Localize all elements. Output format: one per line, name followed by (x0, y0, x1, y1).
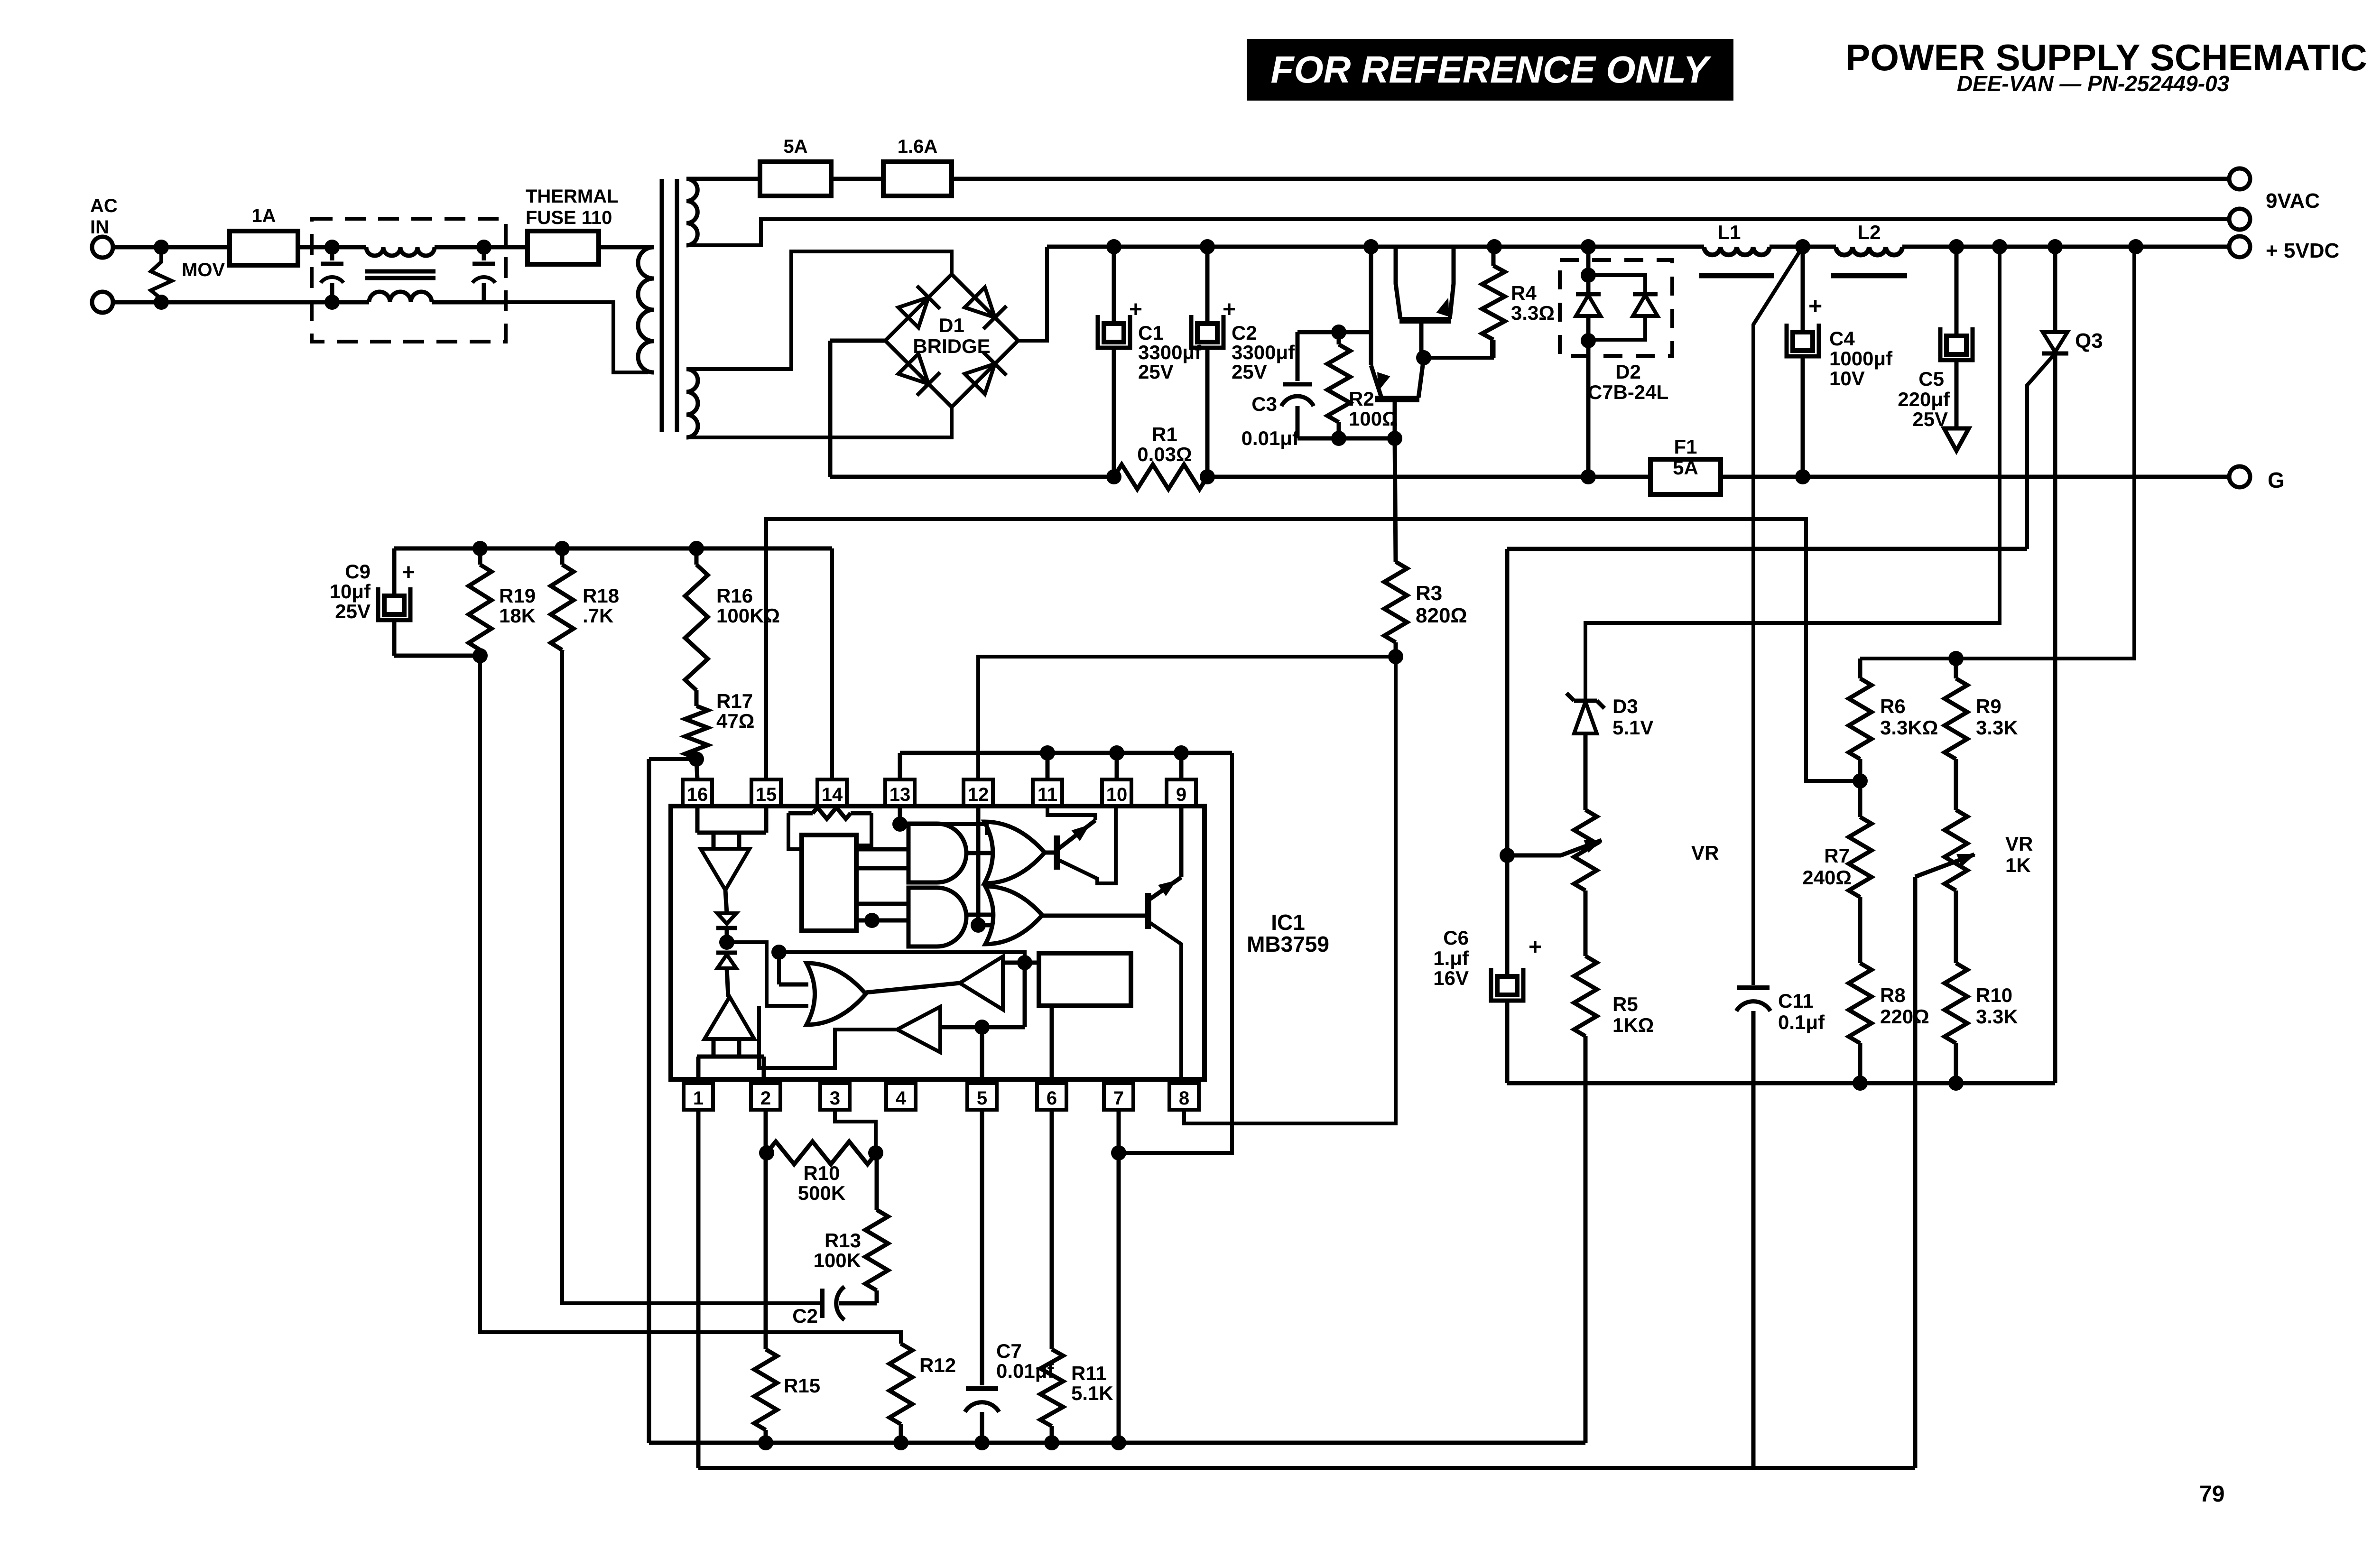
capacitor C5 (1940, 247, 1973, 427)
terminal 9VAC bottom (2229, 209, 2250, 230)
transistor Q1 emitter (1437, 245, 1454, 319)
transformer core (662, 179, 677, 432)
label C4 1000uf 10V (1829, 327, 1893, 390)
ground arrow below C5 (1944, 428, 1969, 451)
svg-text:R9: R9 (1976, 695, 2001, 717)
svg-text:R4: R4 (1511, 282, 1537, 304)
junction dots on G line (1106, 469, 1810, 484)
label C1 3300uf 25V (1138, 322, 1202, 383)
svg-text:R10: R10 (803, 1162, 840, 1184)
wire Q2 base to R3 (1395, 438, 1396, 562)
IC transistor internal 1 (1045, 806, 1116, 883)
svg-text:240Ω: 240Ω (1802, 866, 1852, 889)
zener D3 (1566, 693, 1604, 733)
label MOV (182, 260, 225, 280)
inductor filter top coil (366, 247, 435, 256)
wire 9VAC top rail (686, 177, 2229, 181)
IC transistor internal 2 (1042, 806, 1181, 1079)
plus sign C9 (402, 560, 415, 585)
resistor R7 (1849, 781, 1872, 963)
svg-text:220μf: 220μf (1898, 388, 1950, 410)
svg-text:+: + (1129, 297, 1142, 322)
svg-text:4: 4 (896, 1088, 907, 1109)
svg-text:1K: 1K (2005, 854, 2031, 876)
wire bridge right to rail (1018, 247, 1047, 341)
dashed box D2 (1560, 260, 1672, 356)
IC node OR3 upper input (771, 945, 787, 960)
svg-text:1000μf: 1000μf (1829, 347, 1893, 370)
svg-text:VR: VR (1691, 842, 1719, 864)
IC wire A2 output (759, 1006, 897, 1068)
svg-text:+: + (1808, 293, 1822, 319)
wire VR 1K wiper (1915, 854, 1974, 1468)
wire filter top exit (435, 240, 506, 255)
svg-text:3.3Ω: 3.3Ω (1511, 302, 1555, 324)
svg-text:15: 15 (756, 784, 777, 805)
svg-text:6: 6 (1047, 1088, 1057, 1109)
svg-text:R18: R18 (583, 585, 619, 607)
node R6 R7 junction (1853, 773, 1868, 789)
svg-text:25V: 25V (335, 600, 371, 622)
svg-text:18K: 18K (499, 604, 536, 627)
svg-text:500K: 500K (798, 1182, 845, 1204)
svg-text:L2: L2 (1857, 221, 1881, 243)
svg-text:100KΩ: 100KΩ (716, 604, 780, 627)
IC node diode stack (719, 928, 734, 950)
resistor R13 100K (865, 1153, 888, 1303)
rectifier D1 bridge outline (885, 274, 1018, 407)
svg-text:C4: C4 (1829, 327, 1855, 350)
wire rail to Q1 emitter (1369, 247, 1373, 365)
transistor Q1 collector (1396, 245, 1400, 319)
terminal AC IN bottom (92, 292, 113, 313)
svg-text:100K: 100K (814, 1249, 861, 1271)
label 9VAC (2266, 189, 2320, 213)
label R17 47 (716, 690, 754, 732)
EMI filter dashed box (312, 219, 506, 342)
terminal G (2229, 466, 2250, 487)
label 1.6A (898, 136, 938, 157)
title POWER SUPPLY SCHEMATIC (1845, 37, 2367, 78)
label R13 100K (814, 1229, 861, 1271)
label R18 .7K (583, 585, 619, 627)
svg-text:R15: R15 (784, 1374, 820, 1397)
wire left bus riser (647, 759, 651, 1443)
label R11 5.1K (1071, 1362, 1113, 1404)
label R16 100K (716, 585, 780, 627)
thyristor Q3 (2042, 247, 2068, 1083)
svg-text:10V: 10V (1829, 367, 1865, 390)
wire pin3 to R10 right (835, 1110, 883, 1160)
svg-text:R3: R3 (1416, 582, 1442, 605)
IC wire OR3 to A1 (866, 983, 960, 993)
svg-text:D3: D3 (1612, 695, 1638, 717)
resistor R10 right (1945, 891, 1967, 1083)
label C7 0.01uf (996, 1340, 1054, 1382)
svg-text:25V: 25V (1232, 361, 1267, 383)
svg-text:D1: D1 (939, 314, 964, 336)
label F1 5A (1673, 436, 1698, 479)
wire pin7 to bus1 (1111, 1110, 1126, 1443)
page number 79 (2199, 1482, 2224, 1507)
subtitle DEE-VAN PN-252449-03 (1957, 71, 2230, 96)
fuse 5A (760, 162, 831, 196)
label VR 1K (2005, 833, 2033, 876)
svg-text:R16: R16 (716, 585, 753, 607)
svg-text:+ 5VDC: + 5VDC (2266, 239, 2339, 262)
IC timing resistor (788, 807, 871, 849)
transistor Q1 base bar (1399, 317, 1451, 324)
plus sign C2 (1223, 297, 1236, 322)
resistor R19 (469, 548, 491, 656)
resistor R8 (1849, 963, 1872, 1083)
capacitor C3 (1281, 332, 1314, 438)
svg-text:C7: C7 (996, 1340, 1022, 1362)
svg-text:C5: C5 (1918, 368, 1944, 390)
wire G common line (830, 341, 2229, 477)
svg-text:R17: R17 (716, 690, 753, 712)
svg-text:12: 12 (968, 784, 989, 805)
svg-text:MB3759: MB3759 (1247, 932, 1329, 956)
terminal +5VDC (2229, 236, 2250, 257)
wire AC bottom to primary (506, 302, 648, 372)
label THERMAL FUSE 110 (526, 186, 619, 228)
resistor R11 (1040, 1110, 1063, 1443)
label R10 3.3K right (1976, 984, 2018, 1028)
potentiometer VR 1K (1945, 810, 1967, 891)
capacitor C6 (1491, 855, 1523, 1083)
svg-text:R5: R5 (1612, 993, 1638, 1015)
label R15 (784, 1374, 820, 1397)
IC wire A1 input (1003, 955, 1039, 970)
transistor Q2 base bar (1375, 396, 1419, 402)
fuse F1 (1650, 459, 1721, 494)
IC wire A1 node down (1023, 963, 1027, 1027)
fuse 1.6A (883, 162, 952, 196)
IC amplifier A1 left triangle (960, 956, 1003, 1010)
wire top link to pin7 (1119, 753, 1232, 1153)
svg-text:+: + (1529, 935, 1542, 960)
resistor R6 (1849, 659, 1872, 781)
resistor R5 (1574, 891, 1597, 1443)
label R19 18K (499, 585, 536, 627)
wire pin14 to bias rail (830, 548, 834, 779)
svg-text:9: 9 (1176, 784, 1186, 805)
capacitor C7 (965, 1110, 999, 1443)
svg-text:10μf: 10μf (330, 580, 371, 603)
capacitor C2 timing (822, 1287, 877, 1320)
wire pin12 to R3 bottom (978, 657, 1396, 779)
IC AND gate 1 inputs (856, 849, 908, 868)
label Q3 (2075, 329, 2103, 353)
terminal AC IN top (92, 237, 113, 258)
svg-text:1.6A: 1.6A (898, 136, 938, 157)
svg-text:FOR REFERENCE ONLY: FOR REFERENCE ONLY (1270, 48, 1712, 91)
svg-text:5A: 5A (783, 136, 807, 157)
svg-text:R2: R2 (1349, 388, 1374, 410)
transformer secondary winding upper (686, 179, 697, 245)
wire R3 bottom to pin8 (1184, 657, 1396, 1123)
IC OR gate 1 (984, 822, 1045, 883)
diode bridge bottom-right (965, 352, 1007, 394)
svg-text:3.3K: 3.3K (1976, 1005, 2018, 1028)
label L1 (1717, 221, 1741, 243)
label D1 BRIDGE (913, 314, 990, 357)
svg-text:5: 5 (977, 1088, 987, 1109)
wire R18 to C2cap (562, 651, 820, 1303)
svg-text:2: 2 (760, 1088, 771, 1109)
svg-text:3.3K: 3.3K (1976, 716, 2018, 739)
diode bridge top-right (965, 288, 1007, 329)
svg-text:1KΩ: 1KΩ (1612, 1014, 1654, 1036)
label D3 5.1V (1612, 695, 1653, 739)
svg-text:7: 7 (1113, 1088, 1124, 1109)
svg-text:C9: C9 (345, 560, 371, 583)
svg-text:IN: IN (90, 217, 109, 238)
diode bridge top-left (899, 286, 940, 327)
wire filter top entry (312, 240, 366, 255)
label R1 0.03 (1137, 423, 1192, 465)
wire 9VAC second rail (686, 219, 2229, 245)
IC wire A2 input (940, 1020, 1025, 1035)
fuse THERMAL FUSE 110 (506, 231, 599, 264)
IC wire diode node to OR3 (727, 942, 808, 1006)
varistor MOV (151, 247, 172, 302)
IC OR gate 2 (985, 886, 1042, 944)
svg-text:5.1V: 5.1V (1612, 716, 1653, 739)
svg-text:0.01μf: 0.01μf (1242, 427, 1299, 449)
svg-text:0.1μf: 0.1μf (1778, 1011, 1825, 1033)
svg-text:R19: R19 (499, 585, 536, 607)
svg-text:F1: F1 (1674, 436, 1697, 458)
svg-text:8: 8 (1179, 1088, 1189, 1109)
svg-text:DEE-VAN — PN-252449-03: DEE-VAN — PN-252449-03 (1957, 71, 2230, 96)
node Q2 collector junction (1416, 350, 1431, 365)
svg-text:VR: VR (2005, 833, 2033, 855)
svg-text:16V: 16V (1433, 967, 1469, 989)
label R6 3.3K (1880, 695, 1938, 739)
IC pin boxes 16-9 (683, 779, 1196, 806)
wire R17 junction to left bus riser (649, 757, 696, 761)
svg-text:R7: R7 (1824, 844, 1850, 867)
transistor Q2 collector (1418, 358, 1424, 398)
wire bridge left to ground riser (830, 339, 885, 343)
svg-text:BRIDGE: BRIDGE (913, 335, 990, 357)
label C9 10uf 25V (330, 560, 371, 622)
resistor R17 (685, 706, 708, 759)
IC pin boxes 1-8 (684, 1083, 1199, 1110)
svg-text:L1: L1 (1717, 221, 1741, 243)
wire rail to D3 top link (1585, 247, 2000, 701)
wire bottom bus 2 (698, 1466, 1915, 1470)
svg-text:Q3: Q3 (2075, 329, 2103, 353)
resistor R3 (1384, 562, 1407, 657)
label 1A (251, 205, 276, 226)
IC wire AND2 to OR2 (966, 913, 992, 917)
resistor R9 (1945, 659, 1967, 810)
svg-text:10: 10 (1106, 784, 1128, 805)
inductor L2 (1831, 247, 1907, 276)
svg-text:79: 79 (2199, 1482, 2224, 1507)
wire base network top (1297, 325, 1370, 340)
label C5 220uf 25V (1898, 368, 1950, 430)
resistor R4 (1482, 247, 1505, 358)
label L2 (1857, 221, 1881, 243)
svg-text:0.03Ω: 0.03Ω (1137, 443, 1192, 465)
label R9 3.3K (1976, 695, 2018, 739)
resistor R10 500K (767, 1141, 877, 1164)
svg-text:13: 13 (889, 784, 911, 805)
IC amplifier output yoke (697, 1039, 764, 1079)
plus sign C6 (1529, 935, 1542, 960)
svg-text:R8: R8 (1880, 984, 1906, 1006)
label VR left (1691, 842, 1719, 864)
transistor Q1 base lead (1419, 320, 1424, 358)
wire thermal fuse to transformer (599, 245, 654, 250)
transformer secondary winding lower (686, 369, 698, 437)
svg-text:1: 1 (693, 1088, 704, 1109)
IC oscillator box (802, 835, 856, 931)
svg-text:47Ω: 47Ω (716, 710, 754, 732)
svg-text:R12: R12 (919, 1354, 956, 1376)
IC comparator input yoke (697, 806, 766, 849)
svg-text:14: 14 (822, 784, 843, 805)
IC AND gate 1 (908, 824, 966, 882)
IC wire OR3 upper input (779, 952, 1025, 984)
potentiometer VR left (1574, 810, 1597, 891)
svg-text:.7K: .7K (583, 604, 613, 627)
svg-text:R13: R13 (825, 1229, 861, 1252)
capacitor C9 (378, 548, 480, 656)
IC flip flop box (1039, 953, 1131, 1006)
wire AC top (113, 240, 230, 255)
svg-text:C7B-24L: C7B-24L (1588, 381, 1668, 403)
svg-text:D2: D2 (1615, 361, 1641, 383)
transformer primary winding (638, 247, 654, 372)
capacitor C4 (1787, 247, 1819, 477)
capacitor C11 (1736, 988, 1770, 1468)
svg-text:R10: R10 (1976, 984, 2012, 1006)
wire pin2 down (759, 1110, 774, 1160)
svg-text:C1: C1 (1138, 322, 1164, 344)
terminal 9VAC top (2229, 168, 2250, 189)
label AC IN (90, 195, 118, 238)
IC amplifier A2 left triangle (897, 1007, 940, 1052)
wire +5VDC rail (1047, 245, 2229, 249)
label R5 1K (1612, 993, 1654, 1036)
label C2 3300uf 25V (1232, 322, 1295, 383)
svg-text:R6: R6 (1880, 695, 1906, 717)
label R8 220 (1880, 984, 1929, 1028)
svg-text:25V: 25V (1138, 361, 1174, 383)
inductor L1 (1699, 247, 1774, 276)
wire bridge top feed (686, 251, 952, 369)
svg-text:11: 11 (1038, 784, 1057, 805)
IC amplifier triangle up (704, 997, 754, 1039)
wire AC bottom (113, 295, 312, 310)
IC diode pair lower (716, 953, 737, 997)
inductor filter bottom coil (369, 292, 432, 302)
svg-text:5A: 5A (1673, 456, 1698, 479)
IC wire AND1 to OR1 (966, 851, 991, 855)
node R19 bottom (473, 648, 488, 663)
wire bridge bottom feed (686, 408, 952, 437)
capacitor filter C-left (321, 247, 343, 302)
resistor R1 (1114, 464, 1207, 489)
diode bridge bottom-left (899, 354, 940, 396)
IC1 MB3759 body (671, 806, 1205, 1079)
IC comparator triangle (701, 849, 750, 890)
IC wire pin13 to OR1 (900, 824, 987, 835)
transistor Q2 emitter (1371, 365, 1390, 398)
IC AND gate 2 (908, 888, 966, 946)
label D2 C7B-24L (1588, 361, 1668, 403)
label C6 1uf 16V (1433, 927, 1469, 989)
capacitor C1 (1098, 247, 1130, 477)
wire pin15 to R6 R7 junction (766, 519, 1860, 781)
svg-text:C6: C6 (1443, 927, 1469, 949)
plus sign C1 (1129, 297, 1142, 322)
diode D2 right (1590, 275, 1658, 340)
IC pin13 inner lead (892, 806, 908, 832)
svg-text:3: 3 (830, 1088, 840, 1109)
svg-text:820Ω: 820Ω (1416, 604, 1467, 627)
resistor R15 (754, 1153, 777, 1443)
svg-text:R11: R11 (1071, 1362, 1107, 1384)
svg-text:AC: AC (90, 195, 118, 216)
svg-text:+: + (1223, 297, 1236, 322)
label G (2268, 468, 2285, 492)
svg-text:IC1: IC1 (1271, 910, 1305, 935)
wire rail to D2 (1581, 247, 1596, 283)
IC diode pair upper (716, 890, 737, 928)
wire box bottom bus (1507, 1076, 2055, 1091)
svg-text:5.1K: 5.1K (1071, 1382, 1113, 1404)
svg-text:3.3KΩ: 3.3KΩ (1880, 716, 1938, 739)
label R2 100 (1349, 388, 1398, 430)
svg-text:1.μf: 1.μf (1433, 947, 1469, 969)
IC AND gate 2 inputs (856, 904, 908, 928)
resistor R2 (1327, 332, 1350, 438)
node R3 bottom (1388, 649, 1403, 664)
svg-text:16: 16 (687, 784, 708, 805)
node VR wiper feed (1500, 848, 1515, 863)
label R10 500K (798, 1162, 845, 1204)
wire D2 to G (1586, 341, 1591, 477)
svg-text:MOV: MOV (182, 260, 225, 280)
svg-text:+: + (402, 560, 415, 585)
wire D3 to VR (1584, 733, 1588, 810)
label R4 3.3 (1511, 282, 1555, 324)
label C2 timing (792, 1305, 818, 1327)
svg-text:G: G (2268, 468, 2285, 492)
IC pin12 inner lead (971, 806, 992, 933)
label R3 820 (1416, 582, 1467, 627)
wire collector node to R4 (1424, 340, 1492, 358)
fuse 1A (230, 231, 298, 265)
capacitor C2 (1191, 247, 1223, 477)
banner FOR REFERENCE ONLY (1247, 39, 1733, 101)
wire R19 to R12 (480, 656, 901, 1344)
resistor R16 (685, 548, 708, 706)
svg-text:100Ω: 100Ω (1349, 408, 1398, 430)
node R17 bottom (689, 752, 704, 767)
wire base network bottom (1297, 431, 1402, 446)
label C11 0.1uf (1778, 990, 1825, 1033)
label R7 240 (1802, 844, 1852, 889)
wire bias top rail (394, 541, 832, 556)
svg-text:220Ω: 220Ω (1880, 1005, 1929, 1028)
